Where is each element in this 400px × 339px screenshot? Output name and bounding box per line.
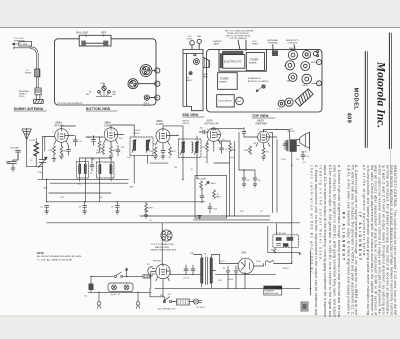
wire T4 secondary to speaker xyxy=(297,140,300,146)
AC plug P3 xyxy=(190,299,203,304)
tube V4 6AT6 xyxy=(206,127,220,145)
ground G1 xyxy=(11,168,15,171)
circled terminal 4 xyxy=(311,60,321,65)
ground G3 xyxy=(60,156,64,159)
AC return wire xyxy=(88,276,151,292)
svg-text:FIELD: FIELD xyxy=(283,268,289,270)
wire gang to grid xyxy=(43,137,55,157)
label V3 xyxy=(156,119,164,126)
svg-text:AVC: AVC xyxy=(130,186,135,189)
svg-text:C. Repeat adjustments until n: C. Repeat adjustments until no further i… xyxy=(314,165,318,315)
svg-text:470K: 470K xyxy=(244,150,249,152)
filter choke resistor R12 xyxy=(266,261,274,266)
svg-text:PHONO: PHONO xyxy=(153,261,161,263)
wire plate V1 xyxy=(62,126,76,136)
svg-text:47 MMF: 47 MMF xyxy=(20,44,28,46)
svg-text:A.C. INTERLOCK: A.C. INTERLOCK xyxy=(158,308,176,311)
svg-text:A. Connect high side of gener: A. Connect high side of generator throug… xyxy=(337,165,341,318)
svg-text:CONTROL: CONTROL xyxy=(288,43,299,45)
wire AVC line xyxy=(219,141,231,145)
coupling cap C14 xyxy=(238,128,246,138)
svg-text:CONT: CONT xyxy=(187,38,193,40)
svg-text:V.C.: V.C. xyxy=(296,159,300,161)
note set screw text xyxy=(225,30,254,40)
AC feed wire xyxy=(92,275,151,277)
grid resistor R1 xyxy=(49,146,56,158)
trimmer screw center xyxy=(102,84,106,91)
svg-text:455 KC: 455 KC xyxy=(134,130,142,132)
svg-text:P1 & P2 CONNECTORS: P1 & P2 CONNECTORS xyxy=(151,244,175,246)
IF transformer T1 xyxy=(130,137,153,156)
vertical osc to rail xyxy=(86,181,100,202)
svg-text:APPROX. LOCATED: APPROX. LOCATED xyxy=(248,80,269,83)
line resistor R20 xyxy=(143,275,150,278)
svg-text:OSC: OSC xyxy=(77,184,82,186)
svg-text:MODEL: MODEL xyxy=(353,88,359,111)
antenna jack xyxy=(7,152,18,168)
svg-text:GND: GND xyxy=(144,211,149,213)
svg-text:POWER: POWER xyxy=(220,79,229,81)
svg-text:DIAL LIGHT: DIAL LIGHT xyxy=(76,32,89,35)
plug caption xyxy=(150,244,177,252)
svg-text:MEG: MEG xyxy=(96,153,101,155)
svg-text:3 & 41, in this order. Use ma: 3 & 41, in this order. Use maximum outpu… xyxy=(346,165,350,315)
svg-text:TONE SW.: TONE SW. xyxy=(276,233,286,235)
volume control box xyxy=(195,176,227,219)
svg-text:409: 409 xyxy=(345,113,351,124)
svg-text:1 MEG: 1 MEG xyxy=(209,183,216,185)
on-off switch S1 xyxy=(150,295,172,303)
wire to mast xyxy=(14,47,31,49)
svg-text:MEG: MEG xyxy=(231,150,236,152)
rule pair left of logo xyxy=(365,52,367,148)
caption BOTTOM VIEW xyxy=(86,107,117,111)
vertical feed down B xyxy=(276,139,278,212)
svg-text:ADJUST: ADJUST xyxy=(144,104,152,107)
rf shelf screw xyxy=(186,72,193,82)
svg-text:SW: SW xyxy=(160,295,163,297)
coil shelf label xyxy=(252,41,259,45)
filter electrolytic C20 xyxy=(223,266,230,277)
bracket label xyxy=(204,74,210,78)
V6 feed wire from rail xyxy=(161,223,163,265)
tube V1 top view xyxy=(288,48,297,60)
chassis outline top view xyxy=(207,49,323,112)
vertical T1 to rail xyxy=(134,160,147,184)
svg-text:SPEAKER IS: SPEAKER IS xyxy=(248,77,262,80)
speaker note xyxy=(248,77,269,91)
svg-text:ASSEM.: ASSEM. xyxy=(249,62,257,65)
speaker SP xyxy=(300,132,310,154)
pilot feed arrow xyxy=(126,268,128,276)
T3 leads xyxy=(194,255,220,289)
antenna terminal label xyxy=(268,39,279,49)
svg-text:EXT ANT: EXT ANT xyxy=(11,147,21,150)
tube V5 6AQ5 xyxy=(256,130,270,148)
AVC bus rail xyxy=(50,182,128,184)
mast loading coil xyxy=(35,69,40,77)
chassis header line xyxy=(183,53,203,55)
volume shaft circle xyxy=(187,36,195,49)
tube V5 top view xyxy=(287,73,297,83)
rect output wire xyxy=(254,264,264,267)
svg-text:BOTTOM VIEW: BOTTOM VIEW xyxy=(86,107,111,111)
svg-text:PLUG: PLUG xyxy=(19,96,25,98)
wire V5 plate to T4 xyxy=(264,130,290,140)
svg-text:CONV: CONV xyxy=(104,125,111,128)
svg-text:DUMMY ANTENNA: DUMMY ANTENNA xyxy=(14,107,44,111)
electrolytic clamp band xyxy=(222,51,243,55)
label T1 xyxy=(133,130,141,135)
svg-text:(2) NO. 47: (2) NO. 47 xyxy=(111,294,121,296)
chassis rail bottom xyxy=(47,222,146,224)
wire V2 plate to T1 xyxy=(111,125,134,137)
caption TOP VIEW xyxy=(252,114,275,118)
tube V6 top view xyxy=(302,74,312,87)
svg-text:1M: 1M xyxy=(271,250,274,252)
padder cap C6 xyxy=(90,160,94,171)
ground G4 xyxy=(109,156,113,159)
shield plug block xyxy=(35,88,41,100)
svg-text:.05 .05: .05 .05 xyxy=(183,278,190,280)
line electrolytic C22 xyxy=(84,276,94,297)
svg-text:TURNS: TURNS xyxy=(25,72,33,74)
svg-text:470K: 470K xyxy=(148,208,153,210)
cord drop B xyxy=(136,292,140,308)
small grommet xyxy=(194,54,196,56)
spare socket bottom xyxy=(285,98,293,106)
bypass cap C4 xyxy=(67,145,71,155)
svg-text:6.3V: 6.3V xyxy=(218,280,223,282)
svg-text:OSCILLATOR: OSCILLATOR xyxy=(218,100,232,103)
AVC drop wires xyxy=(150,141,234,216)
ext ant capacitor xyxy=(11,147,21,161)
svg-text:OSC: OSC xyxy=(101,83,106,85)
top scan margin band xyxy=(0,0,400,27)
svg-text:PM: PM xyxy=(174,167,177,169)
bypass cap C9 xyxy=(78,202,87,214)
svg-text:C41: C41 xyxy=(143,71,146,73)
junction dots right xyxy=(182,165,292,180)
tone L-wire to PSU arrow xyxy=(268,226,300,252)
tuner box xyxy=(246,53,264,71)
label C2 left xyxy=(86,92,92,96)
on-off switch S2 xyxy=(115,272,123,277)
oscillator coil box xyxy=(217,95,235,107)
V3 bypass cap C11 xyxy=(161,147,165,159)
bus rail lower xyxy=(47,201,147,203)
svg-text:NOTE:: NOTE: xyxy=(37,253,44,255)
vertical T2 drops xyxy=(183,160,197,180)
arrow lead xyxy=(12,43,19,45)
svg-text:455 KC: 455 KC xyxy=(183,123,191,125)
tone cap C19 xyxy=(277,244,281,246)
vertical gang to rail xyxy=(43,169,47,202)
svg-text:40/40: 40/40 xyxy=(228,279,234,281)
dial lamp I1 xyxy=(112,285,117,290)
wire osc grid xyxy=(80,158,112,160)
bypass cap C8 xyxy=(40,206,49,215)
AVC cap C13 xyxy=(220,145,229,154)
speaker part label box xyxy=(264,286,282,295)
svg-text:TERMINAL: TERMINAL xyxy=(268,42,279,45)
svg-text:MATING VIEW: MATING VIEW xyxy=(155,246,169,249)
power transformer T3 xyxy=(200,254,213,285)
svg-text:VOLUME: VOLUME xyxy=(197,179,206,181)
rectifier V7 6X4 xyxy=(238,251,254,277)
svg-text:ALL RESISTORS ARE INDICATED IN: ALL RESISTORS ARE INDICATED IN OHMS xyxy=(37,255,82,258)
chassis base label xyxy=(213,40,223,45)
loop antenna symbol xyxy=(22,128,31,167)
interlock block xyxy=(172,299,190,305)
wire cluster feeds xyxy=(277,223,292,235)
svg-text:adjust C3 for maximum output a: adjust C3 for maximum output at this fre… xyxy=(323,165,327,317)
tube V3 6BA6 IF xyxy=(153,143,156,145)
svg-text:DET-AVC-AF: DET-AVC-AF xyxy=(205,123,220,126)
svg-text:ADJ: ADJ xyxy=(86,93,90,96)
svg-text:C19A-18C: C19A-18C xyxy=(265,287,276,290)
screen cap C5 xyxy=(74,136,83,147)
output transformer T4 xyxy=(286,129,297,152)
mounting bracket xyxy=(203,57,209,67)
tube V1 6BE6 converter xyxy=(54,129,68,147)
chassis outline bottom view xyxy=(55,39,157,105)
bottom scan margin band xyxy=(0,316,400,339)
IF can diagonal xyxy=(295,89,313,107)
capacitor 47MMF box xyxy=(19,42,32,46)
svg-text:C1A: C1A xyxy=(38,171,43,174)
chassis outline end view xyxy=(183,49,203,110)
V4 plate wire xyxy=(217,129,258,137)
svg-text:TRANSF.: TRANSF. xyxy=(219,81,228,84)
tube V2 6BA6 IF xyxy=(104,128,118,146)
cathode resistor R11 xyxy=(262,148,270,160)
bottom rail psu xyxy=(155,287,300,289)
svg-text:47K: 47K xyxy=(172,151,176,153)
leader to chassis A xyxy=(238,40,246,51)
tone contact block B xyxy=(287,237,294,241)
svg-text:Motorola Inc.: Motorola Inc. xyxy=(375,61,388,128)
dial lamp I2 xyxy=(124,285,129,290)
grid resistor R10 xyxy=(244,146,252,154)
vertical feed down A xyxy=(272,133,274,213)
svg-text:1W: 1W xyxy=(253,143,256,145)
wire V5 top to vert xyxy=(270,133,277,137)
wire stubs caps xyxy=(239,132,255,174)
antenna terminal block xyxy=(272,49,278,56)
dial light housing xyxy=(79,35,111,46)
diode load resistor R8 xyxy=(201,143,209,155)
tone switch dark box xyxy=(283,243,288,246)
svg-text:LOOP: LOOP xyxy=(29,140,36,142)
wire T1 secondary down xyxy=(134,156,147,160)
svg-text:VIEWED FROM WIRE SIDE: VIEWED FROM WIRE SIDE xyxy=(150,250,177,252)
label V2 xyxy=(104,121,111,128)
spare socket mid xyxy=(278,100,285,110)
tuning shaft circle xyxy=(197,35,202,49)
tuner shaft inside xyxy=(194,59,200,65)
svg-text:reading on the output meter us: reading on the output meter used. xyxy=(319,165,323,261)
trimmer parts row xyxy=(96,91,112,97)
vertical V1 down xyxy=(54,146,69,158)
caption DUMMY ANTENNA xyxy=(14,107,47,111)
circled terminal 1 xyxy=(152,68,160,73)
tube V4 top view xyxy=(301,62,310,71)
loop coil L1 xyxy=(29,139,38,159)
interstage cap C5b xyxy=(87,136,96,146)
dial lamp housing xyxy=(108,283,133,296)
svg-text:AVC: AVC xyxy=(44,187,49,190)
speaker return vertical xyxy=(310,148,311,295)
svg-text:ADJ: ADJ xyxy=(113,93,117,96)
label C3 right xyxy=(113,91,118,96)
svg-text:22K: 22K xyxy=(49,150,53,152)
B plus to rail xyxy=(274,263,292,265)
plug label xyxy=(19,90,29,98)
bypass cap C10 xyxy=(111,202,120,214)
audio coupling cap C17 xyxy=(242,174,250,187)
svg-text:OUTPUT: OUTPUT xyxy=(287,131,296,133)
caption END VIEW xyxy=(183,113,205,117)
label V5 xyxy=(256,119,268,126)
rule pair right of logo xyxy=(389,33,391,149)
rectifier socket top view xyxy=(236,97,244,105)
output tube V6 socket xyxy=(153,261,170,283)
circled terminal 5 xyxy=(312,81,322,86)
svg-text:B-: B- xyxy=(150,220,152,222)
screen resistor R7 xyxy=(169,147,177,155)
circled terminal 2 xyxy=(138,81,160,86)
label V4 xyxy=(205,119,220,126)
psu junction dots xyxy=(227,262,311,289)
heater wires xyxy=(228,276,245,288)
mid rail psu xyxy=(170,274,275,276)
B plus vertical xyxy=(291,166,293,264)
wire antenna to gang xyxy=(27,159,43,167)
label T2 xyxy=(182,121,190,126)
svg-text:side to chassis. Set generato: side to chassis. Set generator to 1620 K… xyxy=(332,165,336,317)
tube socket V3 bottom view xyxy=(140,65,152,77)
ground G2 xyxy=(52,159,56,162)
tone cap C16 xyxy=(301,152,310,160)
svg-text:.0005: .0005 xyxy=(230,157,236,159)
rail stub left xyxy=(49,192,111,194)
tube socket V4 bottom view xyxy=(128,79,138,89)
svg-text:TUNER: TUNER xyxy=(250,59,259,62)
bypass cap C18 xyxy=(253,174,261,187)
svg-text:MEG: MEG xyxy=(216,197,221,199)
plug mating view xyxy=(161,230,172,241)
tone resistor stub xyxy=(271,249,276,254)
coupling cap C12 xyxy=(199,128,209,135)
svg-text:270V: 270V xyxy=(281,159,286,161)
power transformer xyxy=(218,73,238,90)
osc trim T-B xyxy=(97,158,115,181)
svg-text:SHELF: SHELF xyxy=(252,43,259,45)
svg-text:BASE: BASE xyxy=(214,42,220,45)
coil label xyxy=(25,70,33,74)
interstage wire xyxy=(86,136,104,137)
inner panel line xyxy=(185,54,187,107)
cathode resistor R4 xyxy=(110,146,117,154)
mast base plate xyxy=(34,100,44,104)
stamp box xyxy=(301,302,308,311)
connector tick xyxy=(13,47,15,49)
svg-text:SPKR: SPKR xyxy=(301,152,307,154)
screen bypass cap C15 xyxy=(283,141,287,150)
svg-text:6X4: 6X4 xyxy=(242,251,247,255)
circled terminal 3 xyxy=(149,95,160,100)
tube V2 top view xyxy=(303,50,311,58)
tube V3 top view xyxy=(284,61,295,70)
cathode resistor R2 xyxy=(60,147,68,155)
svg-text:2ND IF: 2ND IF xyxy=(182,121,190,123)
B+ rail upper xyxy=(38,178,129,180)
filament caps pair xyxy=(183,265,195,280)
svg-text:SHELF: SHELF xyxy=(186,80,193,82)
svg-text:6AQ5: 6AQ5 xyxy=(303,84,309,87)
page top edge line xyxy=(0,27,400,29)
small socket xyxy=(144,95,149,100)
tuner bay outline xyxy=(219,49,267,71)
IF transformer T2 xyxy=(179,136,202,160)
connector P2 xyxy=(147,264,155,276)
svg-text:117V: 117V xyxy=(220,261,225,263)
interstage resistor R2b xyxy=(98,137,106,152)
svg-text:RF & OSC ADJUSTMENTS: RF & OSC ADJUSTMENTS xyxy=(58,102,83,105)
label V1 xyxy=(55,121,64,128)
svg-text:PWR AMP: PWR AMP xyxy=(256,123,268,126)
svg-text:C2 for maximum output. B. Se: C2 for maximum output. B. Set generator … xyxy=(328,165,332,317)
svg-text:K = 1000. ALL CAPACITORS IN M: K = 1000. ALL CAPACITORS IN MF. xyxy=(37,258,73,261)
osc coil T-A xyxy=(77,158,89,186)
junction dots AC xyxy=(90,276,138,293)
sensitivity control label xyxy=(286,40,299,50)
electrolytic can xyxy=(223,55,245,69)
wire T4 bottom down xyxy=(291,152,293,166)
leader wires xyxy=(85,34,104,37)
label 2nd IF adjustment xyxy=(144,103,152,107)
svg-text:117 V.A.C.: 117 V.A.C. xyxy=(196,306,206,309)
V3 cathode resistor R6 xyxy=(150,147,158,159)
svg-text:470K: 470K xyxy=(201,147,206,149)
dropping resistor R5 xyxy=(144,202,154,218)
gang capacitor C1A xyxy=(38,156,48,174)
svg-text:ELECTROLYTIC: ELECTROLYTIC xyxy=(224,60,242,63)
junction dots row xyxy=(46,179,118,203)
tone contact block A xyxy=(276,237,282,241)
cord drop A xyxy=(97,292,101,308)
svg-text:TOP VIEW: TOP VIEW xyxy=(252,114,269,118)
ant trimmer clover xyxy=(313,51,318,57)
svg-text:MADE IN USA: MADE IN USA xyxy=(265,292,279,295)
AVC resistor R9 xyxy=(229,143,237,152)
rails mid right xyxy=(140,202,300,223)
wire V3 plate top xyxy=(163,126,183,136)
antenna mast tube xyxy=(31,48,37,88)
AC line wires xyxy=(150,288,163,297)
filter electrolytic C21 xyxy=(234,266,241,277)
tone control box xyxy=(273,233,298,247)
svg-text:END VIEW: END VIEW xyxy=(183,113,199,117)
HV wire T3 to rect xyxy=(220,263,239,265)
cap C7 xyxy=(116,145,120,156)
label TO LOOP xyxy=(14,38,26,43)
tube V6 wires xyxy=(151,272,170,289)
electrolytic clamp side xyxy=(220,53,223,68)
AVC resistor R3 xyxy=(96,146,104,155)
vertical V4 drop xyxy=(207,145,214,163)
